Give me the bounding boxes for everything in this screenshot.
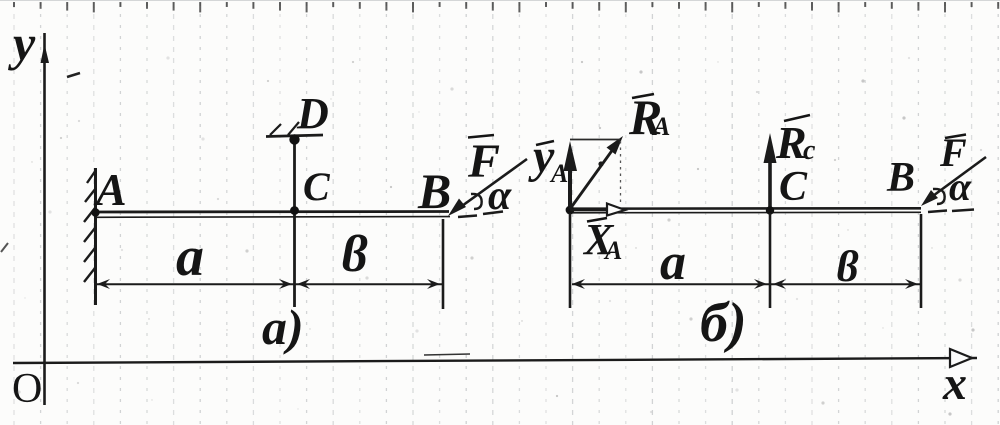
svg-text:O: O — [12, 366, 42, 412]
vector YA — [564, 141, 578, 206]
x-axis — [13, 349, 977, 367]
svg-text:A: A — [603, 236, 622, 265]
svg-text:C: C — [303, 164, 331, 209]
label YA bar — [536, 141, 554, 145]
svg-text:A: A — [549, 159, 568, 188]
top edge ticks — [14, 2, 998, 12]
node C dot (right) — [766, 206, 774, 214]
svg-text:а): а) — [262, 299, 304, 355]
svg-text:C: C — [779, 164, 808, 210]
svg-text:x: x — [942, 357, 967, 410]
label F bar (left) — [468, 135, 494, 138]
beam AB (right) — [570, 208, 921, 213]
svg-text:B: B — [417, 163, 451, 219]
vector RC — [764, 133, 777, 207]
node D dot — [289, 134, 299, 144]
extension line at B (left) — [442, 219, 445, 309]
node C dot — [290, 206, 299, 215]
svg-text:R: R — [775, 117, 807, 168]
label F bar (right) — [945, 135, 966, 139]
svg-text:α: α — [949, 164, 972, 209]
svg-text:б): б) — [700, 292, 747, 354]
svg-text:c: c — [803, 135, 816, 166]
extension line at A (right) — [569, 213, 572, 308]
beam AB (left) — [95, 212, 450, 218]
svg-text:B: B — [886, 155, 915, 201]
parallelogram construction lines — [570, 139, 620, 141]
angle arc (left) — [471, 194, 482, 209]
dimension line a-b (right) — [572, 279, 920, 289]
node A dot (right) — [566, 206, 575, 215]
x-axis overdraw fragment — [424, 354, 470, 355]
dimension line a-b (left) — [97, 279, 442, 289]
rod CD — [293, 137, 296, 307]
y-axis — [41, 33, 50, 405]
extension line at B (right) — [920, 214, 923, 308]
svg-text:A: A — [651, 112, 670, 141]
svg-text:а: а — [176, 226, 204, 288]
svg-text:D: D — [296, 89, 329, 138]
label XA bar — [587, 218, 607, 222]
vector RA — [570, 136, 623, 209]
svg-text:y: y — [8, 15, 36, 71]
extension line at C (right) — [769, 213, 772, 308]
force F (left) — [448, 159, 527, 216]
svg-text:A: A — [93, 164, 127, 215]
ink blotch on RA line — [598, 161, 603, 166]
dashed ref line (left) — [458, 212, 503, 218]
paper top edge faint line — [0, 0, 1000, 1]
label RC bar — [784, 115, 810, 121]
support at D — [266, 122, 323, 137]
node A dot — [91, 208, 99, 216]
angle arc (right) — [933, 189, 945, 204]
svg-text:а: а — [660, 234, 686, 291]
force F (right) — [921, 157, 986, 206]
svg-text:ϐ: ϐ — [836, 242, 859, 291]
stray dash — [67, 73, 80, 77]
label RA bar — [632, 94, 654, 98]
svg-text:ϐ: ϐ — [341, 226, 368, 283]
vector XA — [570, 204, 625, 216]
wall at A — [84, 168, 96, 305]
dashed ref line (right) — [928, 210, 974, 213]
